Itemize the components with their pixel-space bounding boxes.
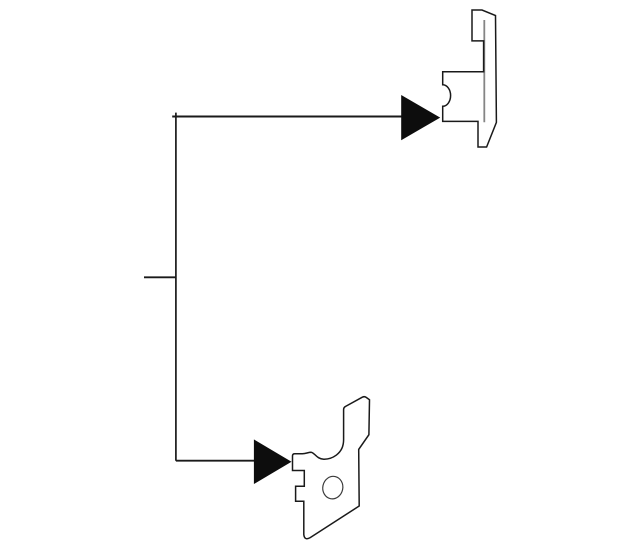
wire: bottom horizontal lead	[176, 460, 256, 462]
wire: middle left tick	[144, 276, 176, 278]
arrowhead to bottom part	[254, 439, 292, 484]
part B: bracket outline	[293, 397, 370, 539]
part A: moulding cross-section outline	[443, 10, 497, 147]
part B: circular hole	[321, 474, 345, 500]
part A inner gray edge line	[483, 20, 485, 122]
wire: top horizontal lead	[172, 116, 403, 118]
arrowhead to top part	[401, 95, 440, 140]
wire: vertical connector line	[175, 113, 177, 461]
